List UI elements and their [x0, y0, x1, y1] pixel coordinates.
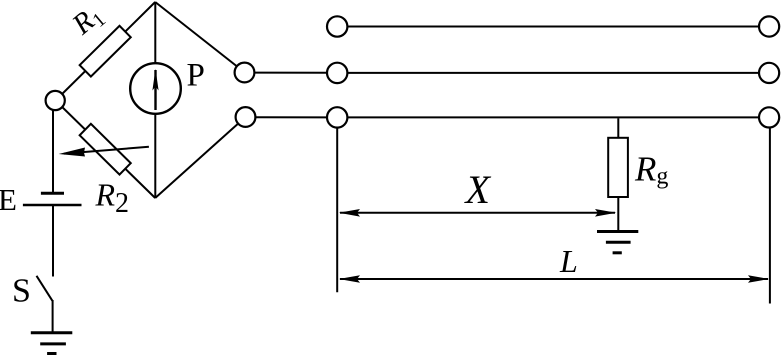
node: line1 right terminal [759, 16, 779, 36]
wire dropper left (measure start) [336, 128, 338, 293]
node: line2 right terminal [759, 63, 779, 83]
wiper arrow of R2 [59, 147, 149, 157]
cable line 1 [348, 26, 760, 28]
needle of galvanometer [152, 69, 158, 110]
svg-text:Rg: Rg [634, 150, 668, 190]
svg-text:L: L [559, 243, 578, 279]
node: line1 left terminal [327, 16, 347, 36]
node: bridge left terminal [46, 91, 65, 110]
svg-text:X: X [464, 167, 492, 212]
svg-text:R2: R2 [95, 177, 130, 220]
node: line3 left terminal [327, 107, 347, 127]
cable line 2 left segment [254, 72, 327, 74]
resistor R2 (adjustable) [80, 124, 131, 175]
node: line3 right terminal [759, 107, 779, 127]
node: line2 left terminal [327, 63, 347, 83]
resistor Rg [608, 138, 628, 197]
switch S blade [37, 276, 53, 301]
ground (fault point) [597, 232, 638, 253]
wire switch to ground [52, 300, 54, 332]
svg-text:E: E [0, 182, 17, 217]
wire dropper right (cable end) [769, 128, 771, 304]
wire center vertical (bottom) [154, 113, 156, 198]
dimension arrow X [339, 209, 617, 217]
dimension arrow L [339, 275, 769, 283]
svg-text:P: P [187, 58, 205, 94]
ground (battery branch) [31, 333, 73, 354]
wire line3 to Rg [617, 118, 619, 137]
resistor R1 [80, 26, 131, 77]
node: bridge upper-right terminal [235, 63, 255, 83]
galvanometer P [130, 63, 181, 114]
node: bridge lower-right terminal [236, 107, 256, 127]
cable line 3 [348, 116, 760, 118]
battery E short plate [41, 192, 64, 195]
svg-text:R1: R1 [66, 0, 110, 44]
wire battery to switch [52, 205, 54, 277]
battery E long plate [23, 204, 82, 207]
label R1 [66, 0, 110, 44]
wire top vertex to upper-right node [155, 2, 237, 66]
wire left node to battery [52, 110, 54, 192]
svg-text:S: S [12, 273, 31, 310]
wire top-left bridge edge (under R1) [56, 2, 155, 100]
wire bottom vertex to lower-right node [155, 124, 238, 198]
cable line 2 [348, 72, 760, 74]
wire bottom-left bridge edge (under R2) [56, 101, 155, 198]
wire center vertical (top) [154, 2, 156, 64]
cable line 3 left segment [255, 116, 327, 118]
wire Rg to ground [617, 197, 619, 232]
